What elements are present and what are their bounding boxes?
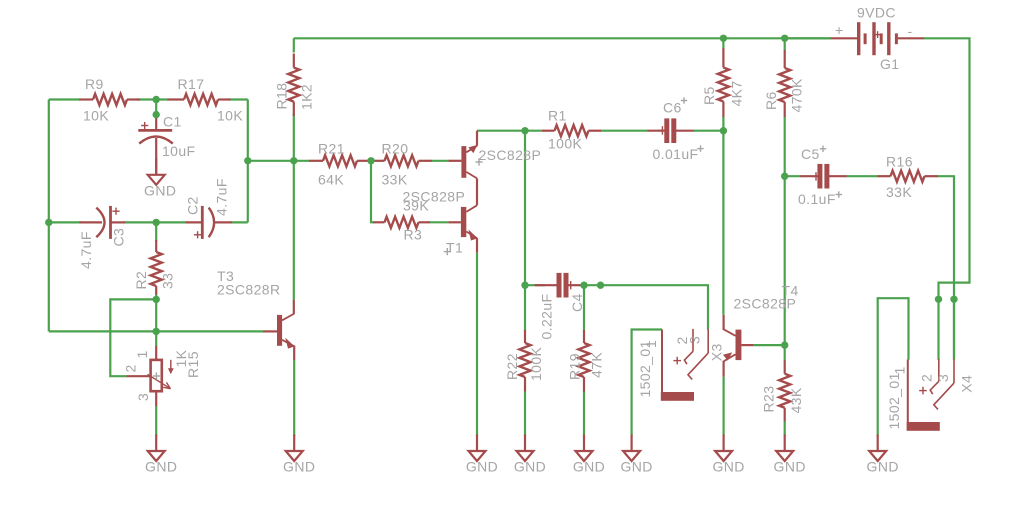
wire top supply rail: [294, 37, 831, 39]
svg-text:1502_01: 1502_01: [637, 340, 653, 397]
svg-text:C1: C1: [163, 114, 182, 130]
svg-text:R9: R9: [85, 76, 104, 92]
wire battery positive segment: [785, 37, 831, 39]
ground GND (C1): [144, 158, 176, 198]
svg-text:C2: C2: [185, 196, 201, 215]
resistor R17: [168, 76, 244, 124]
wire T1 emitter top to R1: [477, 130, 543, 132]
potentiometer R15: [123, 346, 202, 406]
wire right feedback vertical: [247, 100, 249, 223]
node rail R5: [720, 35, 727, 42]
wire R6 top: [784, 38, 786, 50]
wire C6 node down to T4 collector: [722, 131, 724, 315]
resistor R21: [309, 141, 370, 188]
wire R2 top lead: [155, 222, 157, 241]
resistor R5: [701, 48, 745, 117]
transistor T4 2SC828P: [723, 283, 799, 377]
svg-text:R20: R20: [382, 141, 409, 157]
capacitor C1: [138, 114, 195, 175]
node T4 base/R23: [781, 341, 788, 348]
svg-text:4.7uF: 4.7uF: [78, 231, 94, 269]
svg-text:C4: C4: [569, 293, 585, 312]
wire C5 node down to T4 base row: [784, 176, 786, 345]
svg-text:G1: G1: [880, 56, 899, 72]
node C4 left: [521, 282, 528, 289]
wire R9/R17 node: [137, 98, 169, 100]
node R9/R17/C1: [153, 96, 160, 103]
svg-text:2SC828P: 2SC828P: [479, 147, 542, 163]
wire R22 to GND: [524, 391, 526, 437]
svg-text:GND: GND: [712, 459, 744, 475]
node R2/pot: [153, 296, 160, 303]
svg-text:3: 3: [687, 336, 703, 344]
battery G1 9VDC: [831, 5, 924, 73]
ground GND (X3): [620, 435, 652, 475]
capacitor C2: [185, 178, 233, 239]
wire R17 right lead: [229, 98, 248, 100]
transistor T1 lower 2SC828P: [403, 189, 478, 256]
ground GND (T3): [283, 435, 315, 475]
svg-text:R15: R15: [185, 351, 201, 378]
wire X4 sleeve to GND: [878, 298, 909, 436]
svg-text:C3: C3: [111, 228, 127, 247]
svg-text:2SC828P: 2SC828P: [734, 296, 797, 312]
wire R1 to C6: [601, 130, 649, 132]
resistor R23: [761, 360, 805, 421]
ground GND (R15): [145, 435, 177, 475]
wire C2 right lead: [231, 221, 248, 223]
svg-text:100K: 100K: [528, 346, 544, 381]
svg-text:R23: R23: [761, 386, 777, 413]
svg-text:R22: R22: [504, 353, 520, 380]
wire C4 row to X3 tip: [583, 285, 708, 329]
wire R2 bottom to pot: [155, 294, 157, 347]
svg-text:+: +: [835, 22, 844, 38]
svg-text:4.7uF: 4.7uF: [214, 178, 230, 216]
svg-text:T1: T1: [446, 240, 463, 256]
wire R22 top lead: [524, 285, 526, 331]
svg-text:2SC828R: 2SC828R: [217, 282, 281, 298]
wire X4 pin3 lead: [953, 299, 955, 359]
wire R19 top lead: [583, 285, 585, 331]
ground GND (X4): [867, 435, 899, 475]
svg-text:9VDC: 9VDC: [857, 5, 896, 21]
wire T1 emitter to GND: [476, 253, 478, 436]
ground GND (R23): [774, 435, 806, 475]
resistor R16: [878, 154, 939, 201]
node R18/R21/T3: [290, 157, 297, 164]
svg-text:R6: R6: [763, 91, 779, 110]
svg-text:100K: 100K: [548, 136, 583, 152]
node C4 right: [580, 282, 587, 289]
svg-text:4K7: 4K7: [729, 80, 745, 106]
svg-text:R1: R1: [548, 108, 567, 124]
node C3 left: [45, 219, 52, 226]
wire C4 left lead: [525, 284, 545, 286]
wire C5 to R16: [846, 175, 878, 177]
resistor R2: [133, 240, 176, 295]
wire R16 output to X4 pin3: [938, 176, 954, 359]
wire R18 to T3 collector: [293, 114, 295, 300]
wire C3/C2 node: [124, 221, 187, 223]
svg-text:3: 3: [935, 374, 951, 382]
wire C1 top lead: [155, 100, 157, 115]
svg-text:-: -: [908, 23, 913, 39]
capacitor C3: [78, 206, 127, 269]
resistor R19: [567, 330, 605, 391]
svg-text:X4: X4: [959, 375, 975, 393]
resistor R9: [79, 76, 140, 124]
ground GND (T1): [466, 435, 498, 475]
resistor R6: [763, 50, 805, 117]
svg-text:0.22uF: 0.22uF: [539, 294, 555, 340]
wire X3 sleeve to GND: [632, 330, 662, 437]
svg-text:R17: R17: [178, 76, 205, 92]
wire R6 to C5 node: [784, 117, 786, 177]
svg-text:GND: GND: [867, 459, 899, 475]
svg-text:GND: GND: [573, 459, 605, 475]
svg-text:R2: R2: [133, 271, 149, 290]
svg-text:C5: C5: [801, 146, 820, 162]
svg-text:GND: GND: [774, 459, 806, 475]
svg-text:R3: R3: [404, 227, 423, 243]
wire R19 to GND: [583, 391, 585, 437]
svg-text:0.01uF: 0.01uF: [653, 146, 699, 162]
svg-text:2: 2: [919, 374, 935, 382]
svg-text:R16: R16: [886, 154, 913, 170]
wire R23 top lead: [784, 345, 786, 361]
wire R9 left lead: [49, 98, 81, 100]
svg-text:0.1uF: 0.1uF: [798, 191, 836, 207]
svg-text:X3: X3: [709, 343, 725, 361]
svg-text:33K: 33K: [382, 172, 408, 188]
node X4 pin2: [935, 296, 942, 303]
wire C6 to R5 node: [693, 130, 723, 132]
wire left loop vertical: [48, 100, 50, 332]
wire R3 to T1 base: [430, 221, 449, 223]
node X4 pin3: [950, 296, 957, 303]
node C3/C2/R2: [153, 219, 160, 226]
wire R15 pin3 to GND: [155, 406, 157, 436]
svg-text:1K2: 1K2: [299, 84, 315, 110]
resistor R18: [274, 54, 315, 117]
svg-text:GND: GND: [514, 459, 546, 475]
ground GND (R19): [573, 435, 605, 475]
wire R5 top: [722, 38, 724, 48]
svg-text:GND: GND: [466, 459, 498, 475]
node feedback: [244, 157, 251, 164]
transistor T1 (darlington pair) upper 2SC828P: [448, 131, 541, 206]
node C6 right: [720, 127, 727, 134]
svg-text:64K: 64K: [318, 172, 344, 188]
connector X4 (1502_01 jack): [886, 359, 975, 431]
svg-text:R19: R19: [567, 353, 583, 380]
transistor T3: [217, 268, 295, 360]
svg-text:470K: 470K: [789, 78, 805, 113]
wire T3 emitter to GND: [293, 360, 295, 436]
svg-text:10uF: 10uF: [162, 143, 196, 159]
node R21/R20/R3: [367, 157, 374, 164]
wire T4 emitter to GND: [722, 377, 724, 436]
ground GND (R22): [514, 435, 546, 475]
svg-text:R5: R5: [701, 86, 717, 105]
svg-text:1: 1: [134, 350, 150, 358]
svg-text:1502_01: 1502_01: [886, 372, 902, 429]
wire R18 top: [293, 38, 295, 52]
wire bias row left: [248, 160, 310, 162]
node C5/R6: [781, 173, 788, 180]
resistor R22: [504, 330, 544, 391]
ground GND (T4): [712, 435, 744, 475]
wire T4 base to R23 node: [753, 344, 785, 346]
svg-text:10K: 10K: [217, 108, 243, 124]
wire R2 node to pot wiper: [110, 299, 156, 376]
svg-text:2: 2: [123, 364, 139, 372]
capacitor C5: [798, 146, 847, 207]
wire C5 left lead: [785, 175, 801, 177]
resistor R20: [371, 141, 432, 188]
capacitor C6: [648, 97, 704, 162]
svg-text:GND: GND: [620, 459, 652, 475]
svg-text:3: 3: [135, 393, 151, 401]
svg-text:GND: GND: [144, 182, 176, 198]
node rail R6: [781, 35, 788, 42]
svg-text:C6: C6: [663, 100, 682, 116]
node base row: [153, 328, 160, 335]
wire R23 to GND: [784, 421, 786, 436]
wire base row y331: [49, 330, 263, 332]
svg-text:R18: R18: [274, 83, 290, 110]
svg-text:33: 33: [160, 273, 176, 289]
resistor R3: [373, 198, 430, 243]
svg-text:2SC828P: 2SC828P: [403, 189, 466, 205]
node R1 left: [521, 127, 528, 134]
svg-text:47K: 47K: [589, 352, 605, 378]
resistor R1: [542, 108, 601, 152]
wire R20 to T1 base: [432, 160, 449, 162]
wire C3 left lead: [49, 221, 81, 223]
svg-text:43K: 43K: [788, 387, 804, 413]
wire C4 branch vertical: [524, 131, 526, 286]
connector X3 (1502_01 jack): [637, 329, 725, 401]
node X3 branch: [597, 282, 604, 289]
node C1 pin: [153, 111, 160, 118]
wire battery negative to right rail and X4 pin2: [924, 38, 970, 359]
svg-text:R21: R21: [318, 141, 345, 157]
svg-text:GND: GND: [283, 459, 315, 475]
svg-text:10K: 10K: [83, 108, 109, 124]
wire R5 bottom to C6 node: [722, 117, 724, 131]
svg-text:33K: 33K: [886, 184, 912, 200]
wire R21/R20 node to R3: [371, 161, 374, 223]
svg-text:GND: GND: [145, 459, 177, 475]
capacitor C4: [535, 273, 586, 340]
